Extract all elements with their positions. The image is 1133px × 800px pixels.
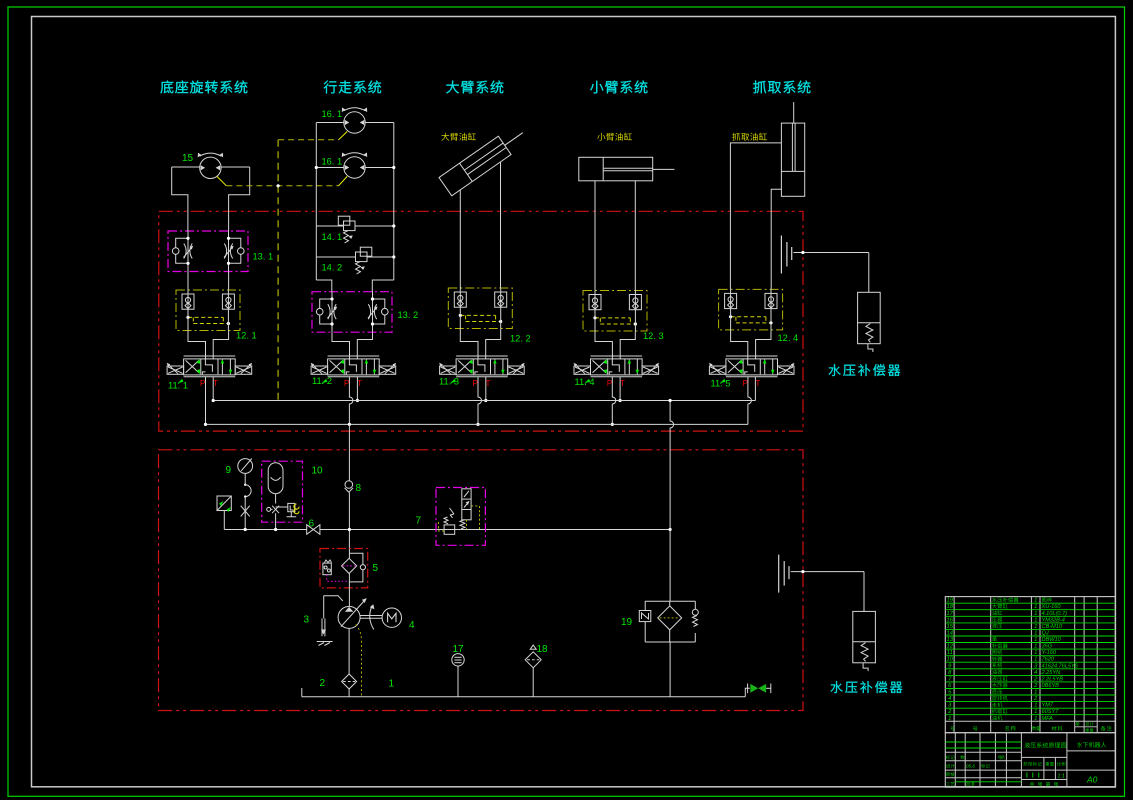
svg-text:1: 1 <box>948 716 951 722</box>
svg-text:1:1: 1:1 <box>1058 774 1065 780</box>
svg-text:4: 4 <box>948 696 951 702</box>
svg-text:CB-M10: CB-M10 <box>1042 624 1063 630</box>
upper red dash-dot enclosure (valve manifold block) <box>159 211 803 431</box>
svg-text:10: 10 <box>312 466 324 477</box>
pilot line from motor 15 (yellow dashed) <box>217 176 227 185</box>
svg-text:0B6YB: 0B6YB <box>1042 683 1060 689</box>
pilot-check block 12.4 <box>719 289 783 330</box>
directional valve 11.2 <box>328 355 380 357</box>
valve 11.4 P/T lines <box>612 377 616 425</box>
svg-text:19: 19 <box>946 598 953 604</box>
svg-text:A0: A0 <box>1086 775 1098 785</box>
long yellow pilot line vertical <box>277 140 279 400</box>
svg-text:YM32B-4: YM32B-4 <box>1042 617 1065 623</box>
shut-off valve 6 <box>307 525 320 535</box>
svg-text:11. 1: 11. 1 <box>168 381 188 391</box>
grab cylinder port lines <box>730 143 781 290</box>
valve 11.3 P/T lines <box>478 377 482 425</box>
svg-text:2.25YN: 2.25YN <box>1041 670 1062 676</box>
svg-text:16: 16 <box>946 617 953 623</box>
svg-text:12. 1: 12. 1 <box>236 331 257 341</box>
arm cylinder port lines <box>594 181 596 291</box>
svg-text:41624.76L5Y6: 41624.76L5Y6 <box>1042 663 1079 669</box>
svg-text:1: 1 <box>1034 650 1037 656</box>
svg-text:11. 5: 11. 5 <box>711 379 731 389</box>
svg-text:1: 1 <box>1034 624 1037 630</box>
pressure manifold line <box>206 423 748 425</box>
svg-text:YM7: YM7 <box>1042 703 1054 709</box>
svg-text:2.2L5YB: 2.2L5YB <box>1041 676 1064 682</box>
svg-text:13: 13 <box>946 637 953 643</box>
svg-text:MFA: MFA <box>1042 716 1054 722</box>
valve 11.5 P/T lines <box>748 377 752 425</box>
directional valve 11.1 <box>184 355 236 357</box>
accumulator charging valve <box>275 494 277 504</box>
svg-text:16. 1: 16. 1 <box>322 157 343 167</box>
svg-text:13. 1: 13. 1 <box>253 252 274 262</box>
svg-text:11. 2: 11. 2 <box>312 376 332 386</box>
svg-text:P: P <box>742 378 748 388</box>
svg-text:XU-160: XU-160 <box>1041 604 1062 610</box>
title 大臂系统 (boom system) <box>446 81 503 94</box>
svg-text:2: 2 <box>320 678 326 689</box>
svg-text:1: 1 <box>1034 598 1037 604</box>
valve 11.2 P/T lines <box>349 377 353 425</box>
drain cock valve (green) <box>745 688 750 696</box>
svg-text:6: 6 <box>309 519 315 530</box>
pilot-check block 12.1 <box>176 290 240 331</box>
project name 水下机器人 <box>1077 742 1107 748</box>
svg-text:5: 5 <box>373 563 379 574</box>
label 水压补偿器 (lower) <box>831 681 903 693</box>
upper water pressure compensator <box>780 236 782 274</box>
svg-text:15: 15 <box>182 153 194 164</box>
svg-text:17: 17 <box>946 611 953 617</box>
high pressure filter 5 (red enclosure) <box>320 549 368 588</box>
svg-text:4: 4 <box>409 620 415 631</box>
thermometer 17 <box>452 654 464 666</box>
svg-text:1: 1 <box>1034 716 1037 722</box>
svg-text:7: 7 <box>416 516 422 527</box>
boom cylinder 大臂油缸 (tilted) <box>439 124 529 196</box>
pilot line to motor 16.1 lower (yellow dashed) <box>339 176 348 185</box>
electric motor 4 <box>360 615 382 617</box>
title 抓取系统 (grab system) <box>753 81 810 94</box>
throttle-check block 13.2 <box>312 292 392 333</box>
wires 12.4 to valve 11.5 <box>731 330 748 360</box>
valve 11.1 P/T lines <box>205 377 207 425</box>
lower red dash-dot enclosure (power unit block) <box>159 450 804 711</box>
svg-text:12. 3: 12. 3 <box>643 331 664 341</box>
wires 12.3 to valve 11.4 <box>595 331 612 360</box>
hydraulic motor 15 <box>200 157 221 178</box>
hydraulic motor 16.1 (lower) <box>344 157 365 178</box>
lower water pressure compensator <box>778 555 780 593</box>
svg-text:8: 8 <box>356 483 362 494</box>
svg-text:1: 1 <box>1034 690 1037 696</box>
suction filter 2 <box>348 628 350 674</box>
svg-text:3: 3 <box>304 615 310 626</box>
wires 13.2 to valve 11.2 <box>332 333 350 360</box>
boom cylinder label 大臂油缸 <box>441 133 476 141</box>
svg-text:17: 17 <box>453 644 465 655</box>
pilot line to motor 16.1 upper (yellow dashed) <box>339 132 348 140</box>
pilot-check block 12.3 <box>583 291 647 332</box>
svg-text:1: 1 <box>389 679 395 690</box>
boom cylinder port lines <box>459 190 461 288</box>
pressure valve 7 (magenta enclosure) <box>436 488 485 546</box>
title 行走系统 (travel system) <box>324 81 381 94</box>
svg-text:4.10L(0.7): 4.10L(0.7) <box>1042 611 1068 617</box>
wires 13.1 to 12.1 <box>187 272 189 291</box>
grab cylinder label 抓取油缸 <box>732 133 767 141</box>
return filter 19 with bypass <box>669 530 671 602</box>
svg-text:10: 10 <box>946 657 953 663</box>
wires 12.2 to valve 11.3 <box>460 329 478 360</box>
wires 12.1 to valve 11.1 <box>188 331 206 360</box>
svg-text:13. 2: 13. 2 <box>398 310 419 320</box>
directional valve 11.3 <box>456 355 508 357</box>
relief valve 14.2 <box>316 256 355 258</box>
throttle-check block 13.1 <box>168 231 248 272</box>
tank line <box>302 696 746 698</box>
return riser to tank filter <box>670 401 674 530</box>
pump control lever linkage <box>324 596 343 601</box>
svg-text:14. 2: 14. 2 <box>322 263 343 273</box>
svg-text:1: 1 <box>1034 631 1037 637</box>
svg-text:60SY7: 60SY7 <box>1042 709 1060 715</box>
grab cylinder 抓取油缸 (vertical) <box>781 123 804 196</box>
svg-text:1: 1 <box>1034 644 1037 650</box>
relief valve 14.1 <box>316 225 343 227</box>
pressure trunk line to pump <box>348 424 350 480</box>
svg-text:T: T <box>755 378 760 388</box>
air breather 18 <box>525 652 541 668</box>
tank return manifold line <box>213 400 755 402</box>
svg-text:7620: 7620 <box>1042 657 1055 663</box>
svg-text:05.6: 05.6 <box>966 764 975 769</box>
svg-text:4: 4 <box>1034 670 1037 676</box>
title block frame <box>945 733 1115 788</box>
pressure gauge 9 <box>238 459 253 474</box>
directional valve 11.5 <box>726 355 778 357</box>
gauge snubber loop and isolation valve <box>244 473 246 484</box>
label 水压补偿器 (upper) <box>829 364 901 376</box>
svg-text:1: 1 <box>1034 604 1037 610</box>
arm cylinder label 小臂油缸 <box>597 133 632 141</box>
travel circuit rails <box>316 122 344 124</box>
variable displacement pump 3 <box>348 582 350 607</box>
directional valve 11.4 <box>591 355 643 357</box>
svg-text:12. 2: 12. 2 <box>510 334 531 344</box>
pilot-check block 12.2 <box>448 288 512 329</box>
svg-text:11. 4: 11. 4 <box>575 377 595 387</box>
svg-text:1: 1 <box>1034 617 1037 623</box>
svg-text:12: 12 <box>946 644 953 650</box>
title 小臂系统 (arm system) <box>590 81 647 94</box>
svg-text:18: 18 <box>946 604 953 610</box>
svg-text:1: 1 <box>1034 709 1037 715</box>
svg-text:15: 15 <box>946 624 953 630</box>
svg-text:Y-160: Y-160 <box>1042 650 1057 656</box>
motor 15 piping <box>172 166 200 168</box>
pump drain line (yellow dotted) <box>356 625 362 697</box>
hydraulic motor 16.1 (upper) <box>344 112 365 133</box>
svg-text:19: 19 <box>621 617 633 628</box>
parts list header row <box>950 726 954 730</box>
svg-text:14. 1: 14. 1 <box>322 232 343 242</box>
svg-text:11. 3: 11. 3 <box>439 377 459 387</box>
svg-text:14: 14 <box>946 631 952 637</box>
check valve 8 <box>345 481 353 489</box>
pilot supply line (horizontal) <box>224 529 306 531</box>
accumulator 10 (magenta enclosure) <box>262 461 303 522</box>
svg-text:1: 1 <box>1034 703 1037 709</box>
drawing title 液压系统原理图 <box>1024 742 1066 748</box>
svg-text:9: 9 <box>226 465 232 476</box>
svg-text:1: 1 <box>1034 611 1037 617</box>
svg-text:16. 1: 16. 1 <box>322 109 343 119</box>
svg-text:QJ: QJ <box>1042 631 1049 637</box>
pressure switch <box>217 496 231 511</box>
svg-text:1: 1 <box>1034 637 1037 643</box>
svg-text:11: 11 <box>947 650 953 656</box>
arm cylinder 小臂油缸 <box>579 157 653 181</box>
svg-text:1: 1 <box>1034 657 1037 663</box>
svg-text:18: 18 <box>537 644 549 655</box>
title block small labels <box>946 755 955 759</box>
svg-text:DBW10: DBW10 <box>1042 637 1062 643</box>
title 底座旋转系统 (base rotation system) <box>160 80 247 93</box>
parts list table <box>945 597 1115 733</box>
svg-text:35G: 35G <box>1042 644 1053 650</box>
svg-text:12. 4: 12. 4 <box>778 333 799 343</box>
